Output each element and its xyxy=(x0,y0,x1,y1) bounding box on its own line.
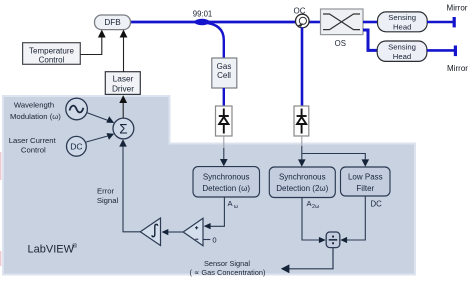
arrow into divider left xyxy=(319,237,326,243)
LabVIEW region (gray polygon) xyxy=(3,96,415,275)
wire: circulator to OS xyxy=(308,21,320,24)
svg-text:ω: ω xyxy=(234,204,238,210)
arrow into comparator plus input xyxy=(204,223,211,229)
svg-text:Wavelength: Wavelength xyxy=(14,100,54,109)
svg-text:Temperature: Temperature xyxy=(29,46,74,55)
svg-text:Driver: Driver xyxy=(112,83,134,93)
wire: integrator output up to summer (error signal) xyxy=(123,144,140,232)
svg-text:Head: Head xyxy=(393,22,411,31)
sine source circle xyxy=(66,98,88,120)
wire: divider to sensor signal output xyxy=(287,248,334,269)
laser DFB xyxy=(95,15,131,30)
wire: Sensing Head 2 to mirror xyxy=(427,49,455,52)
svg-text:Sensing: Sensing xyxy=(388,13,416,22)
svg-text:Error: Error xyxy=(97,187,115,196)
svg-text:99:01: 99:01 xyxy=(193,10,213,19)
wire: DFB to coupler to circulator (main fiber) xyxy=(130,21,296,24)
arrow sensor signal xyxy=(281,264,290,273)
wire: circulator down to photodiode PD2 xyxy=(301,27,304,106)
wire: Sync2 to divider xyxy=(302,198,321,240)
wire: coupler tap branch down to Gas Cell xyxy=(204,23,224,59)
optical circulator OC xyxy=(296,14,310,28)
Gas Cell box xyxy=(212,58,237,88)
svg-text:Detection (2ω): Detection (2ω) xyxy=(276,184,328,193)
svg-text:Gas: Gas xyxy=(217,62,232,71)
wire: Laser Driver to DFB xyxy=(123,33,125,73)
arrow into summer bottom xyxy=(119,139,127,146)
photodiode PD1 box xyxy=(216,106,233,136)
division sign xyxy=(329,236,338,245)
Synchronous Detection (2w) box xyxy=(269,167,335,198)
wire: Temperature Control to DFB xyxy=(80,33,102,55)
arrow into summer upper-left xyxy=(106,116,114,123)
svg-text:Control: Control xyxy=(39,55,65,64)
photodiode PD2 symbol xyxy=(297,109,307,134)
arrow into Low Pass Filter xyxy=(362,159,370,166)
photodiode PD1 symbol xyxy=(219,109,229,134)
zero reference input xyxy=(203,239,210,241)
arrow into Synchronous Detection (w) xyxy=(220,159,228,166)
comparator triangle xyxy=(183,218,203,245)
arrow into integrator xyxy=(162,229,169,235)
summer circle xyxy=(113,118,134,139)
svg-text:DFB: DFB xyxy=(104,18,121,27)
wire: OS to Sensing Head 1 xyxy=(363,21,378,24)
svg-text:DC: DC xyxy=(371,200,383,209)
svg-text:Laser: Laser xyxy=(113,74,134,84)
fiber coupler 99:01 (blue ellipse) xyxy=(194,19,209,25)
Temperature Control box xyxy=(23,43,81,65)
divider block xyxy=(326,232,340,248)
svg-text:Low Pass: Low Pass xyxy=(348,173,383,182)
svg-text:Head: Head xyxy=(393,52,411,61)
scan artifact pink mark lower xyxy=(0,251,1,266)
svg-text:OC: OC xyxy=(294,7,306,16)
arrow into DFB (left) xyxy=(98,30,106,38)
OS internal crossing xyxy=(323,14,360,30)
svg-text:Modulation (ω): Modulation (ω) xyxy=(10,112,61,121)
svg-text:( ∝ Gas Concentration): ( ∝ Gas Concentration) xyxy=(190,268,266,277)
wire: OS lower output to Sensing Head 2 xyxy=(363,30,378,50)
arrow into divider right xyxy=(340,237,347,243)
svg-text:LabVIEW: LabVIEW xyxy=(28,244,75,256)
Low Pass Filter box xyxy=(341,167,391,196)
wire: branch to Low Pass Filter xyxy=(302,154,366,163)
svg-text:Cell: Cell xyxy=(217,71,231,80)
arrow into Laser Driver bottom xyxy=(119,95,127,103)
photodiode PD2 box xyxy=(294,106,309,136)
svg-text:DC: DC xyxy=(70,142,82,152)
svg-text:Sensing: Sensing xyxy=(388,43,416,52)
wire: DC to summer xyxy=(86,136,109,143)
integrator triangle xyxy=(140,218,160,246)
wire: Sensing Head 1 to mirror xyxy=(427,21,453,24)
scan artifact pink mark upper xyxy=(0,152,1,180)
svg-text:Control: Control xyxy=(21,145,46,154)
DC source circle xyxy=(67,136,87,156)
svg-text:Synchronous: Synchronous xyxy=(279,173,326,182)
wire: LPF to divider xyxy=(345,196,366,240)
svg-text:0: 0 xyxy=(212,236,216,245)
wire: Aw to comparator xyxy=(210,197,225,226)
Synchronous Detection (w) box xyxy=(193,167,260,197)
arrow into Synchronous Detection (2w) xyxy=(298,159,306,166)
svg-text:2ω: 2ω xyxy=(312,204,319,210)
svg-text:Detection (ω): Detection (ω) xyxy=(202,184,250,193)
svg-text:Signal: Signal xyxy=(97,196,119,205)
svg-text:Σ: Σ xyxy=(119,122,127,137)
svg-text:®: ® xyxy=(72,242,77,250)
arrow into DFB (right) xyxy=(120,30,128,38)
svg-text:Sensor Signal: Sensor Signal xyxy=(204,259,250,268)
wire: summer to Laser Driver xyxy=(122,99,124,119)
svg-text:Mirror: Mirror xyxy=(447,64,468,73)
svg-text:Laser Current: Laser Current xyxy=(9,136,57,145)
wire: PD2 down with branch node xyxy=(301,136,303,146)
wire: Gas Cell to photodiode PD1 xyxy=(223,88,225,106)
wire: sine to summer xyxy=(87,113,110,122)
arrow into summer lower-left xyxy=(107,133,115,140)
optical switch OS box xyxy=(321,9,364,35)
svg-text:OS: OS xyxy=(335,39,346,48)
wire: comparator to integrator xyxy=(168,231,184,233)
svg-text:Filter: Filter xyxy=(356,184,374,193)
mirror 1 (bar) xyxy=(453,17,456,27)
wire: PD1 to Synchronous Detection (w) xyxy=(223,136,225,148)
Laser Driver box xyxy=(105,72,140,95)
mirror 2 (bar) xyxy=(454,46,457,57)
svg-text:Synchronous: Synchronous xyxy=(203,173,250,182)
Sensing Head 1 xyxy=(378,12,428,32)
svg-text:Mirror: Mirror xyxy=(447,4,468,13)
Sensing Head 2 xyxy=(377,41,427,61)
